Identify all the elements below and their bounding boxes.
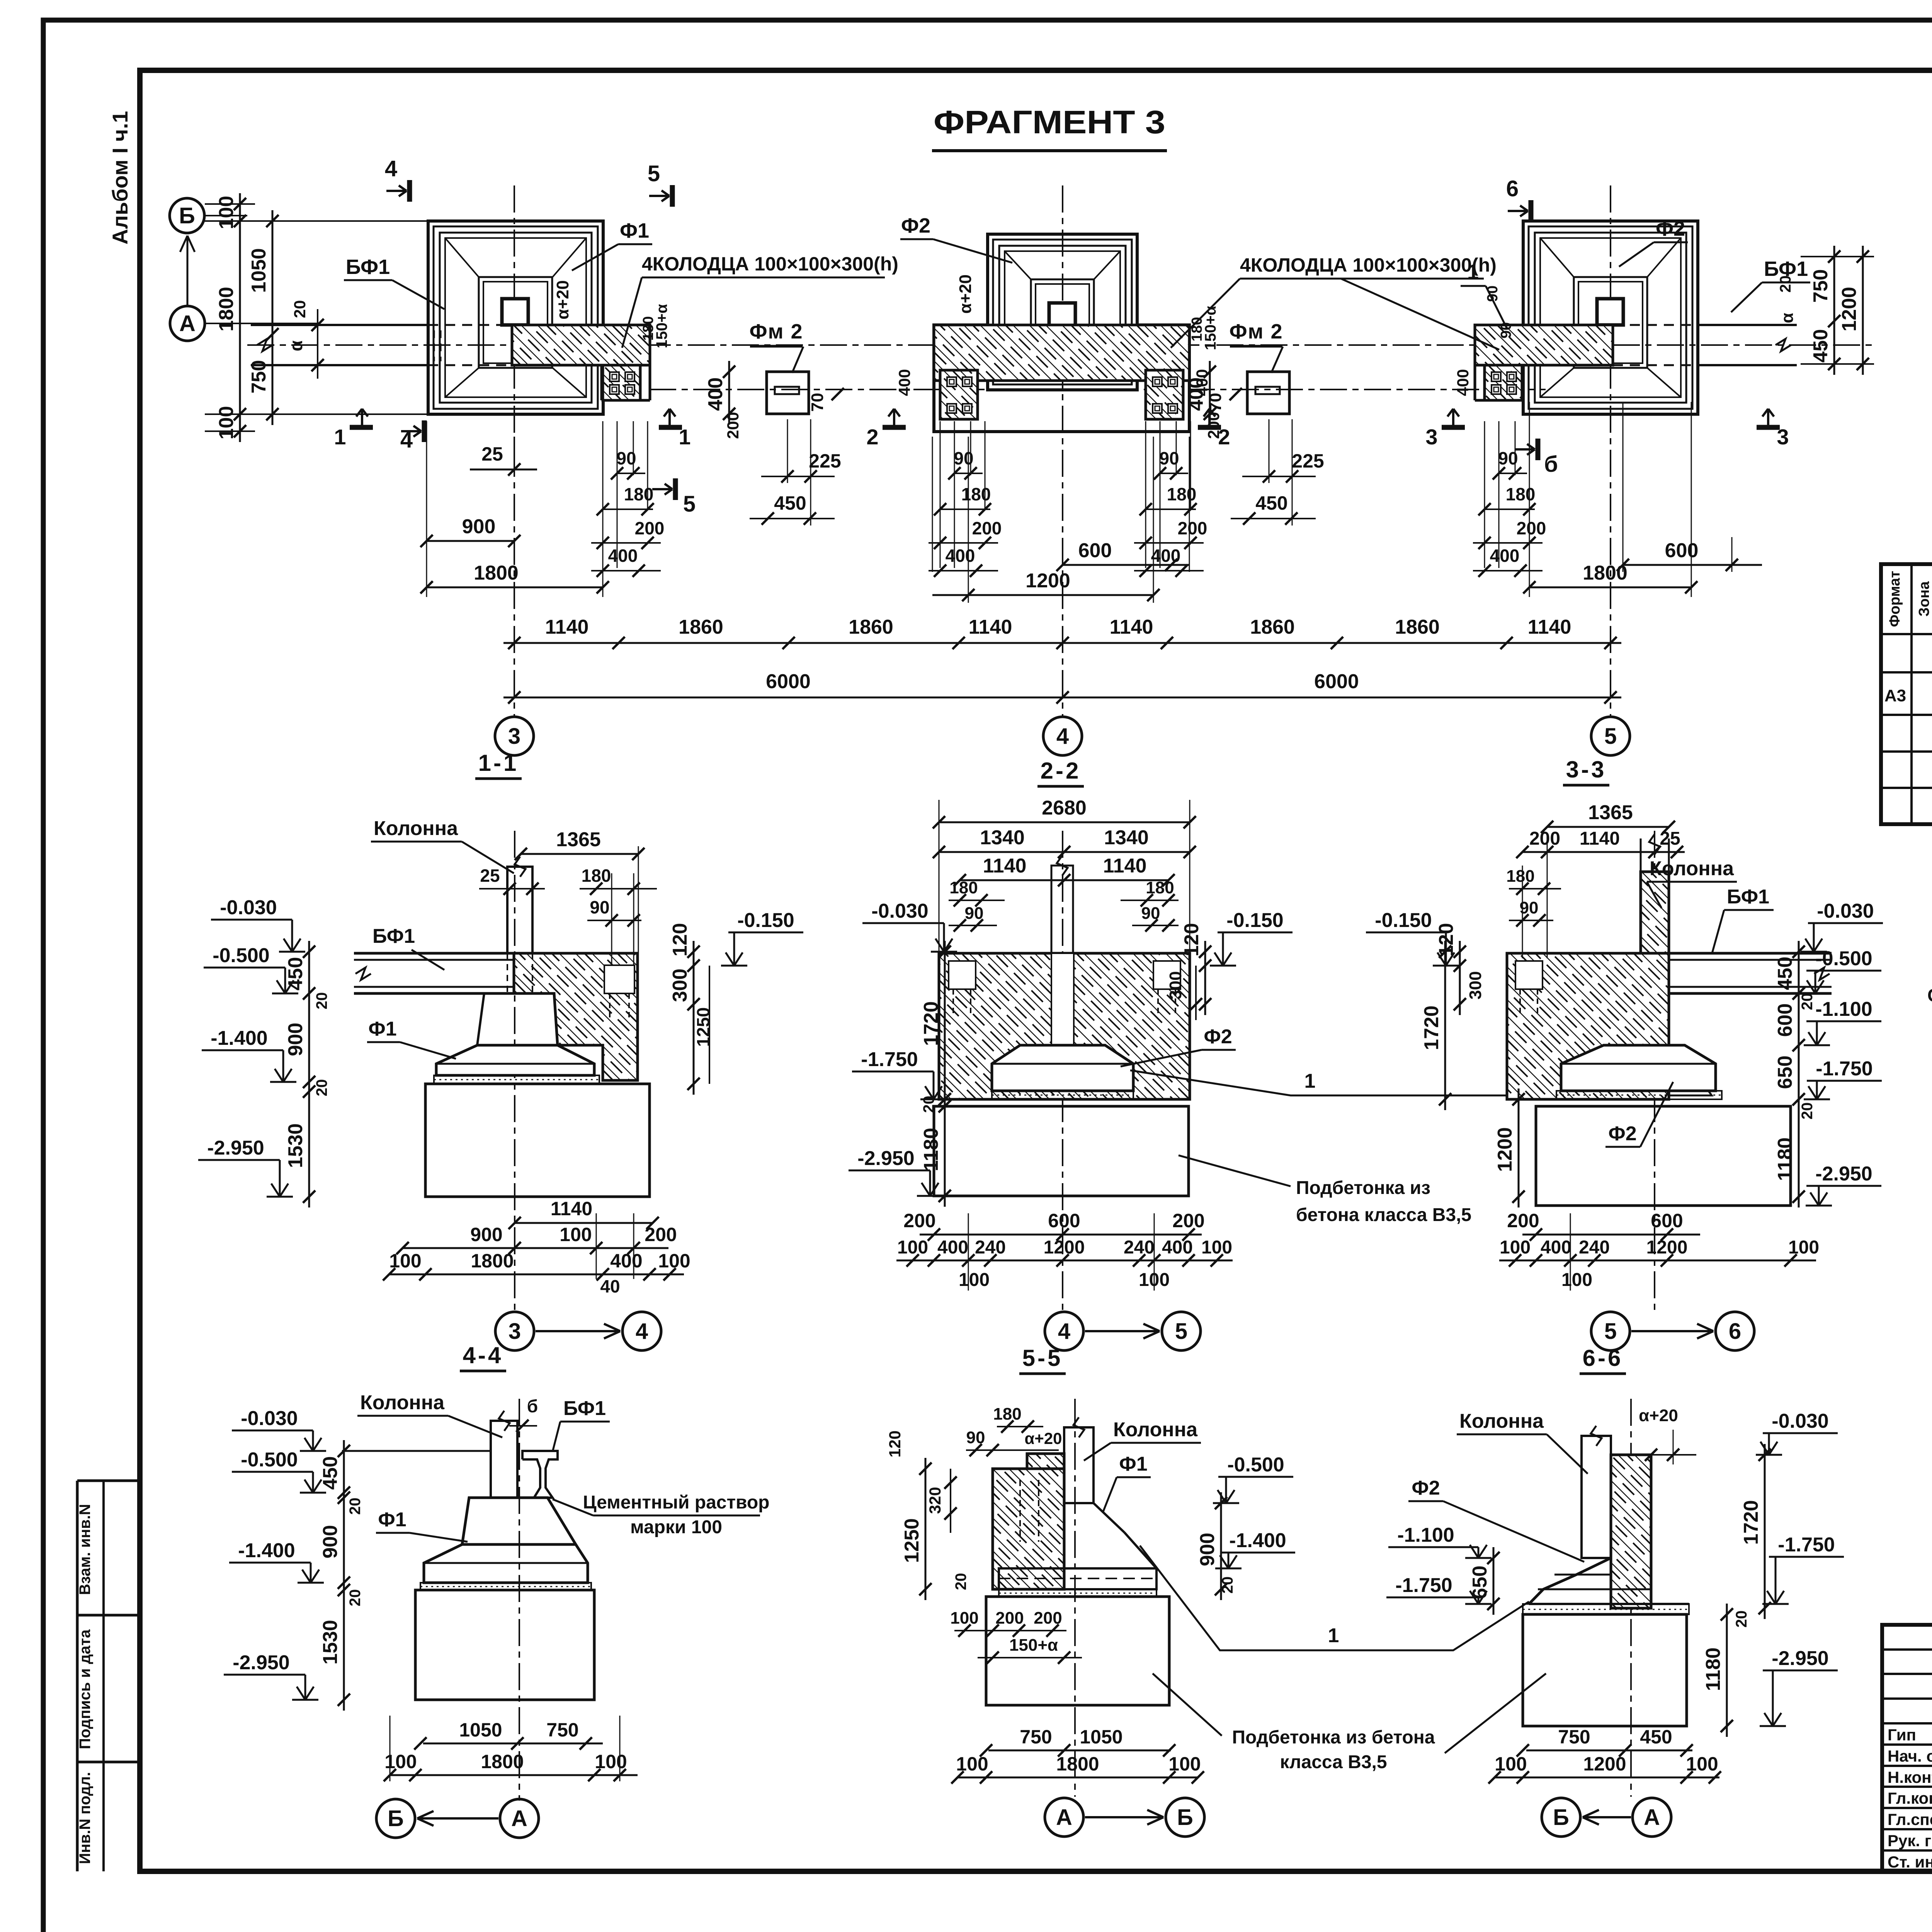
svg-text:4: 4 [1058, 1319, 1070, 1344]
svg-text:1200: 1200 [1026, 570, 1070, 592]
svg-text:1-1: 1-1 [478, 750, 519, 776]
svg-text:Гип: Гип [1888, 1726, 1916, 1744]
svg-text:Ф1: Ф1 [368, 1018, 396, 1040]
svg-text:-0.030: -0.030 [1817, 900, 1874, 922]
svg-text:450: 450 [774, 492, 806, 514]
svg-text:5: 5 [1604, 1319, 1617, 1344]
svg-text:4-4: 4-4 [463, 1342, 503, 1368]
svg-text:1050: 1050 [459, 1719, 502, 1741]
svg-text:-1.750: -1.750 [1395, 1574, 1452, 1597]
section 3-3 base [1536, 1106, 1791, 1206]
svg-text:1050: 1050 [1080, 1726, 1122, 1748]
svg-text:750: 750 [1020, 1726, 1052, 1748]
section 3-3 bolt slot [1515, 961, 1543, 989]
svg-text:Формат: Формат [1887, 571, 1903, 627]
svg-text:100: 100 [950, 1609, 978, 1628]
section 3-3 bottom dims [1522, 1234, 1700, 1236]
plan foundation Ф2 at axis 4 [988, 234, 1137, 390]
section cut flag 6 top [1529, 200, 1534, 222]
svg-text:Гл.спец.: Гл.спец. [1888, 1810, 1932, 1828]
svg-text:200: 200 [724, 412, 742, 439]
svg-text:класса В3,5: класса В3,5 [1280, 1752, 1387, 1772]
dim 400-200 rotated near Фм2 right [1209, 361, 1211, 425]
section 2-2 left vertical dims [944, 941, 946, 1110]
Фм2 small plan square left [767, 372, 809, 414]
svg-text:А: А [511, 1806, 527, 1831]
section 5-5 axis dash-dot [1074, 1399, 1076, 1797]
svg-text:100: 100 [215, 196, 238, 230]
svg-text:1365: 1365 [556, 828, 601, 851]
svg-text:2: 2 [866, 425, 878, 449]
svg-text:А: А [1644, 1805, 1660, 1830]
section 5-5 top dims [997, 1426, 1043, 1427]
svg-text:Б: Б [1553, 1805, 1569, 1830]
section 3-3 axis circles [1591, 1312, 1630, 1350]
section 2-2 bolt slot left [949, 961, 976, 989]
svg-text:1200: 1200 [1838, 287, 1861, 332]
section cut flag 4 bottom [422, 420, 427, 442]
svg-text:1800: 1800 [474, 562, 519, 584]
axis circle А [170, 306, 205, 341]
svg-text:450: 450 [1774, 957, 1796, 990]
svg-text:Ф1: Ф1 [378, 1509, 406, 1531]
section 4-4 axis circles [376, 1799, 415, 1838]
svg-text:1860: 1860 [849, 616, 893, 638]
section 3-3 top dims [1547, 826, 1669, 828]
svg-text:200: 200 [1517, 518, 1546, 538]
svg-text:Ф1: Ф1 [1119, 1453, 1147, 1475]
svg-text:450: 450 [1640, 1726, 1672, 1748]
left vertical dim 100-1800-100 [239, 193, 241, 442]
svg-text:450: 450 [319, 1456, 342, 1490]
svg-text:1: 1 [1304, 1070, 1316, 1092]
section 4-4 column [491, 1421, 517, 1498]
svg-text:Ф2: Ф2 [1204, 1026, 1232, 1048]
svg-text:Колонна: Колонна [360, 1391, 445, 1414]
svg-text:600: 600 [1774, 1003, 1796, 1037]
svg-text:1200: 1200 [1494, 1127, 1516, 1172]
left sidebar stamp boxes [77, 1480, 140, 1482]
svg-text:6000: 6000 [766, 670, 811, 693]
svg-text:400: 400 [704, 378, 727, 411]
svg-text:100: 100 [956, 1753, 988, 1775]
svg-text:-0.500: -0.500 [241, 1449, 298, 1471]
svg-text:90: 90 [966, 1428, 985, 1447]
section cut flag 5 top [670, 185, 675, 207]
svg-text:200: 200 [1507, 1210, 1539, 1231]
svg-text:-2.950: -2.950 [1772, 1647, 1828, 1670]
section 5-5 axis circles [1045, 1798, 1083, 1837]
section 5-5 upper hatched part [1027, 1454, 1064, 1469]
axis circle 4 [1043, 717, 1082, 755]
svg-text:6: 6 [1729, 1319, 1741, 1344]
svg-text:Цементный раствор: Цементный раствор [583, 1492, 770, 1513]
svg-text:200: 200 [1172, 1210, 1204, 1231]
section 2-2 column void [1051, 953, 1074, 1045]
annex contour at axis 3 [649, 325, 651, 400]
svg-text:-0.150: -0.150 [1375, 909, 1432, 932]
svg-text:100: 100 [389, 1250, 421, 1272]
svg-text:120: 120 [669, 923, 691, 957]
dim 400-200 rotated near Фм2 left [728, 361, 730, 425]
annex contour at axis 5 [1474, 325, 1476, 400]
axis circle 3 [495, 717, 534, 755]
svg-text:БФ1: БФ1 [1727, 886, 1769, 908]
svg-text:70: 70 [808, 393, 827, 412]
section 5-5 pedestal Ф1 slope [1094, 1503, 1124, 1532]
svg-text:240: 240 [1124, 1237, 1155, 1258]
svg-text:400: 400 [1193, 369, 1211, 396]
svg-text:400: 400 [1454, 369, 1472, 396]
svg-text:400: 400 [608, 546, 638, 566]
section 5-5 mini dims [954, 1630, 1066, 1631]
svg-text:Инв.N подл.: Инв.N подл. [77, 1772, 94, 1864]
svg-text:Нач. отд.: Нач. отд. [1888, 1747, 1932, 1765]
section 3-3 monolith hatched [1507, 953, 1669, 1099]
extension lines under plan squares [426, 421, 427, 597]
svg-text:100: 100 [215, 406, 238, 440]
monolith hatched strip at axis 4 [934, 325, 1189, 381]
svg-text:1340: 1340 [1104, 827, 1149, 849]
svg-text:1720: 1720 [1740, 1500, 1762, 1545]
section 5-5 bed strip [999, 1589, 1156, 1597]
svg-text:180: 180 [993, 1405, 1021, 1423]
svg-text:320: 320 [926, 1487, 944, 1514]
axis line A horizontal dash-dot [247, 344, 1876, 346]
svg-text:225: 225 [1292, 450, 1324, 472]
svg-text:2-2: 2-2 [1041, 758, 1081, 784]
stub line from circle Б [204, 215, 247, 216]
svg-text:-0.500: -0.500 [213, 944, 269, 967]
svg-text:2680: 2680 [1042, 797, 1087, 819]
svg-text:1800: 1800 [215, 287, 238, 332]
svg-text:1: 1 [1328, 1624, 1339, 1647]
svg-text:400: 400 [895, 369, 913, 396]
svg-text:-0.500: -0.500 [1227, 1454, 1284, 1476]
svg-text:Взам. инв.N: Взам. инв.N [77, 1504, 94, 1595]
svg-text:20: 20 [1799, 1102, 1816, 1120]
svg-text:1250: 1250 [901, 1518, 923, 1563]
svg-text:20: 20 [313, 1079, 330, 1097]
section 1-1 bed strip [434, 1075, 599, 1084]
svg-text:-0.150: -0.150 [737, 909, 794, 932]
svg-text:1140: 1140 [545, 616, 589, 638]
section 5-5 bolt channel dashed [1019, 1480, 1021, 1542]
section 6-6 axis circles [1542, 1798, 1580, 1837]
svg-text:900: 900 [1196, 1533, 1219, 1566]
svg-text:Ф2: Ф2 [1412, 1477, 1440, 1499]
section 2-2 monolith hatched [939, 953, 1190, 1099]
svg-text:240: 240 [1579, 1237, 1610, 1258]
plan dim row 1800 axis3 [427, 587, 603, 588]
section 3-3 axis dash-dot [1654, 831, 1655, 1310]
section 1-1 beam БФ1 [354, 952, 514, 955]
svg-text:100: 100 [1788, 1237, 1819, 1258]
left vertical dim 1050-750 [272, 210, 274, 425]
svg-text:5: 5 [683, 492, 696, 517]
section cut flag 1 right of axis3 plan [659, 425, 682, 430]
svg-text:Подбетонка из: Подбетонка из [1296, 1178, 1430, 1198]
Фм2 small plan square right [1247, 372, 1289, 414]
section 1-1 pedestal Ф1 [436, 1045, 594, 1075]
svg-text:25: 25 [481, 443, 503, 465]
svg-text:БФ1: БФ1 [563, 1397, 606, 1420]
svg-text:1050: 1050 [248, 248, 270, 293]
svg-text:200: 200 [645, 1224, 677, 1245]
svg-text:1: 1 [1467, 260, 1479, 284]
svg-text:5: 5 [1175, 1319, 1187, 1344]
svg-text:400: 400 [1151, 546, 1181, 566]
svg-text:4КОЛОДЦА 100×100×300(h): 4КОЛОДЦА 100×100×300(h) [1240, 254, 1497, 276]
svg-text:3-3: 3-3 [1566, 757, 1607, 782]
svg-text:3: 3 [1425, 425, 1437, 449]
svg-text:-0.150: -0.150 [1226, 909, 1283, 932]
svg-text:α+20: α+20 [553, 280, 572, 320]
svg-text:100: 100 [1495, 1753, 1527, 1775]
svg-text:-1.750: -1.750 [1816, 1058, 1872, 1080]
svg-text:120: 120 [1180, 923, 1203, 957]
section 3-3 bed strip [1556, 1091, 1722, 1099]
svg-text:450: 450 [284, 957, 307, 991]
svg-text:600: 600 [1048, 1210, 1080, 1231]
svg-text:20: 20 [1777, 276, 1794, 293]
svg-text:20: 20 [347, 1498, 364, 1515]
svg-text:Б: Б [179, 203, 195, 228]
svg-text:900: 900 [462, 515, 496, 538]
section 3-3 right vertical dims [1798, 941, 1800, 1207]
section cut flag 4 top [407, 180, 412, 202]
svg-text:2: 2 [1218, 425, 1230, 449]
svg-text:Колонна: Колонна [1459, 1410, 1544, 1432]
bolt well box left at axis 4 [940, 370, 978, 419]
svg-text:1800: 1800 [1056, 1753, 1099, 1775]
svg-text:4: 4 [636, 1319, 648, 1344]
axis 3 vertical dash-dot [514, 185, 515, 716]
section cut flag 6 bottom [1536, 439, 1541, 460]
svg-text:3: 3 [508, 724, 520, 749]
section cut flag 3 bottom-left [1442, 425, 1465, 430]
svg-text:180: 180 [640, 316, 656, 340]
svg-text:100: 100 [1686, 1753, 1718, 1775]
section 1-1 axis circles [495, 1312, 534, 1350]
svg-text:1140: 1140 [983, 855, 1027, 877]
svg-text:400: 400 [937, 1237, 968, 1258]
svg-text:А: А [1056, 1805, 1072, 1830]
svg-text:100: 100 [1168, 1753, 1201, 1775]
svg-text:240: 240 [975, 1237, 1006, 1258]
svg-text:750: 750 [546, 1719, 578, 1741]
svg-text:1140: 1140 [969, 616, 1012, 638]
svg-text:А3: А3 [1884, 686, 1906, 705]
plan dim chain 1140-1860 row [503, 642, 1621, 644]
svg-text:1800: 1800 [471, 1250, 514, 1272]
svg-text:Рук. гр,: Рук. гр, [1888, 1832, 1932, 1850]
svg-text:180: 180 [1506, 867, 1534, 886]
svg-text:400: 400 [1490, 546, 1520, 566]
svg-text:100: 100 [897, 1237, 928, 1258]
svg-text:α+20: α+20 [956, 274, 975, 314]
svg-text:1365: 1365 [1588, 801, 1633, 824]
svg-text:1200: 1200 [1583, 1753, 1626, 1775]
section 2-2 leader 1 to 3-3 [1130, 1059, 1712, 1095]
svg-text:200: 200 [972, 518, 1002, 538]
svg-text:180: 180 [1167, 484, 1197, 504]
svg-text:Ф1: Ф1 [620, 219, 649, 242]
svg-text:1340: 1340 [980, 827, 1025, 849]
svg-text:-1.750: -1.750 [1778, 1534, 1835, 1556]
svg-text:90: 90 [1141, 904, 1160, 923]
svg-text:-1.400: -1.400 [211, 1027, 267, 1049]
svg-text:Колонна: Колонна [1113, 1418, 1198, 1441]
svg-text:180: 180 [624, 484, 654, 504]
dim 225-450 right Фм2 [1269, 419, 1270, 483]
svg-text:4: 4 [385, 156, 397, 181]
svg-text:-2.950: -2.950 [1815, 1163, 1872, 1185]
svg-text:Ф2: Ф2 [901, 214, 930, 237]
svg-text:Ф2: Ф2 [1656, 217, 1685, 240]
plan dim row 1800-600 axis5 [1529, 587, 1691, 588]
svg-text:1530: 1530 [319, 1620, 342, 1665]
svg-text:150+α: 150+α [1009, 1636, 1058, 1655]
svg-text:180: 180 [1506, 484, 1536, 504]
axis circle Б [170, 198, 204, 233]
svg-text:90: 90 [1498, 322, 1514, 338]
svg-text:90: 90 [590, 897, 609, 917]
title block grid [1882, 1625, 1932, 1871]
svg-text:750: 750 [1810, 269, 1832, 303]
svg-text:600: 600 [1078, 539, 1112, 562]
svg-text:100: 100 [1561, 1270, 1592, 1290]
svg-text:1720: 1720 [1420, 1005, 1443, 1050]
plan dim row 900-400 axis3 [427, 540, 514, 542]
svg-text:1140: 1140 [1580, 828, 1620, 849]
svg-text:400: 400 [946, 546, 975, 566]
section 2-2 bottom dims [920, 1234, 1202, 1236]
svg-text:-0.500: -0.500 [1815, 947, 1872, 970]
section 2-2 bolt slot right [1153, 961, 1180, 989]
section 2-2 top dims [939, 821, 1190, 823]
svg-text:90: 90 [1485, 286, 1501, 302]
bolt well box at axis 5 [1485, 365, 1522, 400]
svg-text:300: 300 [669, 969, 691, 1002]
svg-text:Колонна: Колонна [374, 817, 458, 840]
svg-text:бетона класса В3,5: бетона класса В3,5 [1296, 1205, 1471, 1225]
section 1-1 axis dash-dot [514, 831, 515, 1310]
section 2-2 axis circles [1045, 1312, 1083, 1350]
svg-text:200: 200 [1178, 518, 1207, 538]
svg-text:4: 4 [1056, 724, 1069, 749]
svg-text:α+20: α+20 [1639, 1406, 1678, 1425]
svg-text:БФ1: БФ1 [346, 255, 390, 279]
svg-text:Ст. инж.: Ст. инж. [1888, 1853, 1932, 1871]
svg-text:100: 100 [959, 1270, 990, 1290]
svg-text:5: 5 [648, 161, 660, 186]
svg-text:20: 20 [347, 1589, 364, 1607]
svg-text:6-6: 6-6 [1583, 1345, 1623, 1371]
monolith hatched strip at axis 3 [512, 325, 650, 365]
section 1-1 column embedded dashed [507, 953, 508, 993]
monolith hatched strip at axis 5 [1475, 325, 1613, 365]
section 2-2 base [934, 1106, 1189, 1196]
svg-text:180: 180 [961, 484, 991, 504]
svg-text:650: 650 [1469, 1566, 1491, 1599]
section 3-3 column lines up [1640, 838, 1642, 872]
svg-text:-0.030: -0.030 [1772, 1410, 1828, 1432]
section cut flag 2 bottom-right [1198, 425, 1221, 430]
svg-text:-2.950: -2.950 [857, 1147, 914, 1170]
right vertical dims of axis5 plan 750-1200-450 [1833, 246, 1835, 375]
svg-text:-0.030: -0.030 [871, 900, 928, 922]
svg-text:Зона: Зона [1916, 581, 1932, 617]
svg-text:650: 650 [1774, 1056, 1796, 1089]
svg-text:1800: 1800 [481, 1751, 524, 1772]
svg-text:900: 900 [319, 1525, 342, 1559]
svg-text:200: 200 [635, 518, 665, 538]
dim 25 under plan axis3 [514, 437, 515, 469]
svg-text:-1.400: -1.400 [1229, 1529, 1286, 1552]
plan dim chain 6000 row [503, 697, 1621, 699]
section 4-4 axis dash-dot [519, 1399, 520, 1801]
bolt well box right at axis 4 [1146, 370, 1183, 419]
svg-text:100: 100 [1201, 1237, 1232, 1258]
section cut flag 1 bottom-left [350, 425, 373, 430]
svg-text:1800: 1800 [1583, 562, 1628, 584]
svg-text:Подбетонка из бетона: Подбетонка из бетона [1232, 1727, 1435, 1748]
svg-text:1860: 1860 [1250, 616, 1295, 638]
svg-text:1860: 1860 [1395, 616, 1440, 638]
svg-text:1140: 1140 [1103, 855, 1147, 877]
svg-text:1720: 1720 [920, 1001, 942, 1046]
section 3-3 beam БФ1 right [1669, 952, 1832, 955]
svg-text:Б: Б [1177, 1805, 1193, 1830]
section 6-6 axis dash-dot [1630, 1399, 1632, 1797]
section 6-6 column hatched [1611, 1455, 1651, 1608]
svg-text:100: 100 [560, 1224, 592, 1245]
svg-text:3: 3 [509, 1319, 521, 1344]
svg-text:А: А [179, 311, 196, 336]
svg-text:1250: 1250 [693, 1007, 713, 1047]
svg-text:1140: 1140 [1110, 616, 1153, 638]
svg-text:450: 450 [1810, 329, 1832, 363]
svg-text:4: 4 [400, 427, 413, 452]
svg-text:б: б [527, 1396, 538, 1416]
svg-text:-1.750: -1.750 [861, 1048, 918, 1071]
svg-text:б: б [1544, 452, 1558, 477]
section 2-2 column stub [1051, 866, 1073, 953]
svg-text:Колонна: Колонна [1650, 857, 1734, 880]
svg-text:25: 25 [480, 866, 500, 886]
plan dim row 400-600-400 axis4 [1063, 564, 1189, 566]
svg-text:Альбом I ч.1: Альбом I ч.1 [108, 111, 132, 245]
section 2-2 pedestal Ф2 [992, 1045, 1133, 1091]
axis circle 5 [1591, 717, 1630, 755]
section cut flag 2 bottom-left [883, 425, 906, 430]
section 5-5 leader 1 [1140, 1546, 1529, 1650]
section 3-3 column hatched [1641, 872, 1669, 953]
plan foundation Ф1 at axis 3 [428, 221, 603, 414]
section 1-1 column [507, 867, 532, 953]
svg-text:600: 600 [1665, 539, 1699, 562]
svg-text:1: 1 [334, 425, 346, 449]
svg-text:Б: Б [388, 1806, 404, 1831]
section 5-5 bottom dims [988, 1750, 1171, 1752]
svg-text:200: 200 [903, 1210, 935, 1231]
svg-text:600: 600 [1651, 1210, 1683, 1231]
svg-text:Ф2: Ф2 [1608, 1122, 1636, 1145]
svg-text:180: 180 [582, 866, 611, 886]
svg-text:1180: 1180 [1702, 1648, 1725, 1691]
beam БФ1 plan at axis 5 [1698, 324, 1797, 326]
